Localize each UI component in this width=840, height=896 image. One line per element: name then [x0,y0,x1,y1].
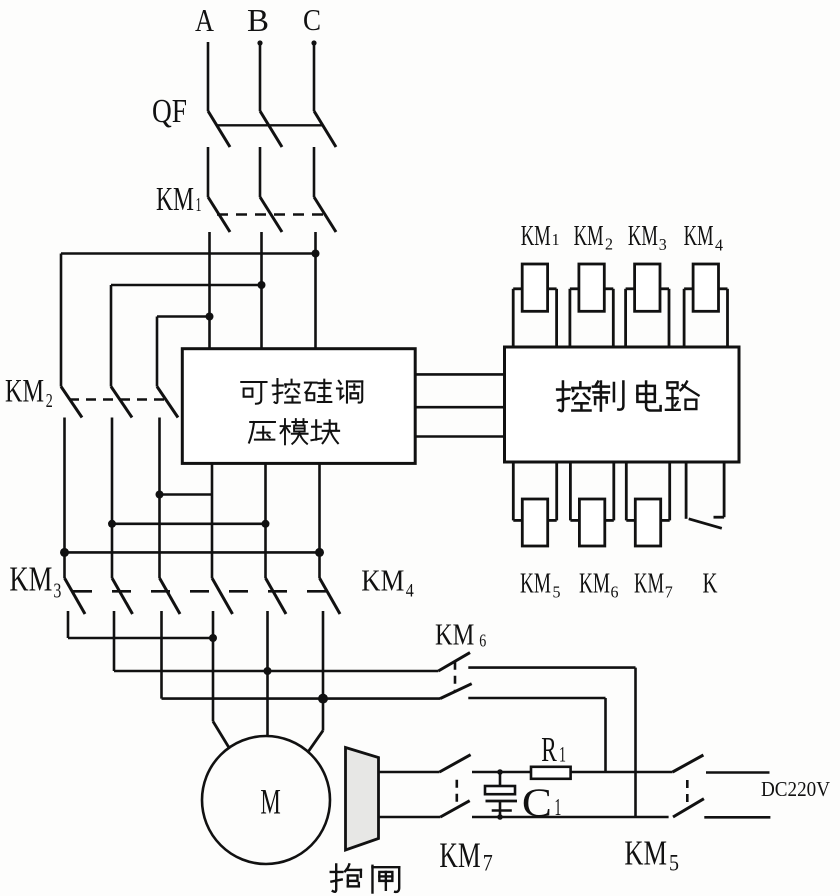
svg-text:KM: KM [435,616,474,651]
svg-text:7: 7 [665,583,673,602]
svg-text:1: 1 [552,230,560,249]
svg-text:QF: QF [152,93,187,130]
svg-text:B: B [247,2,269,38]
svg-text:1: 1 [196,194,202,216]
svg-text:3: 3 [659,235,667,254]
svg-text:KM: KM [684,221,714,252]
svg-text:KM: KM [156,181,194,218]
svg-text:KM: KM [624,833,667,872]
svg-text:KM: KM [520,569,551,600]
svg-text:KM: KM [574,221,604,252]
svg-text:4: 4 [406,581,414,602]
svg-text:KM: KM [634,569,664,600]
svg-text:6: 6 [611,583,619,602]
svg-text:5: 5 [553,583,561,602]
svg-text:2: 2 [46,390,53,412]
svg-text:6: 6 [479,631,486,651]
svg-text:KM: KM [579,569,610,600]
svg-text:KM: KM [439,835,480,875]
svg-text:KM: KM [5,374,44,410]
svg-text:C: C [303,2,321,37]
svg-text:DC220V: DC220V [761,777,830,801]
svg-text:1: 1 [559,742,566,767]
svg-text:1: 1 [554,795,561,821]
svg-text:7: 7 [483,850,493,875]
svg-text:4: 4 [715,236,723,255]
svg-text:2: 2 [605,234,613,253]
svg-text:KM: KM [9,560,52,598]
svg-text:M: M [260,782,280,822]
svg-text:K: K [703,569,718,600]
svg-text:A: A [195,2,214,38]
svg-text:C: C [522,780,552,825]
svg-text:3: 3 [53,579,61,603]
svg-text:5: 5 [669,850,679,875]
svg-text:KM: KM [361,562,404,597]
svg-text:R: R [541,731,557,769]
svg-text:KM: KM [521,221,551,252]
svg-text:KM: KM [628,221,658,252]
